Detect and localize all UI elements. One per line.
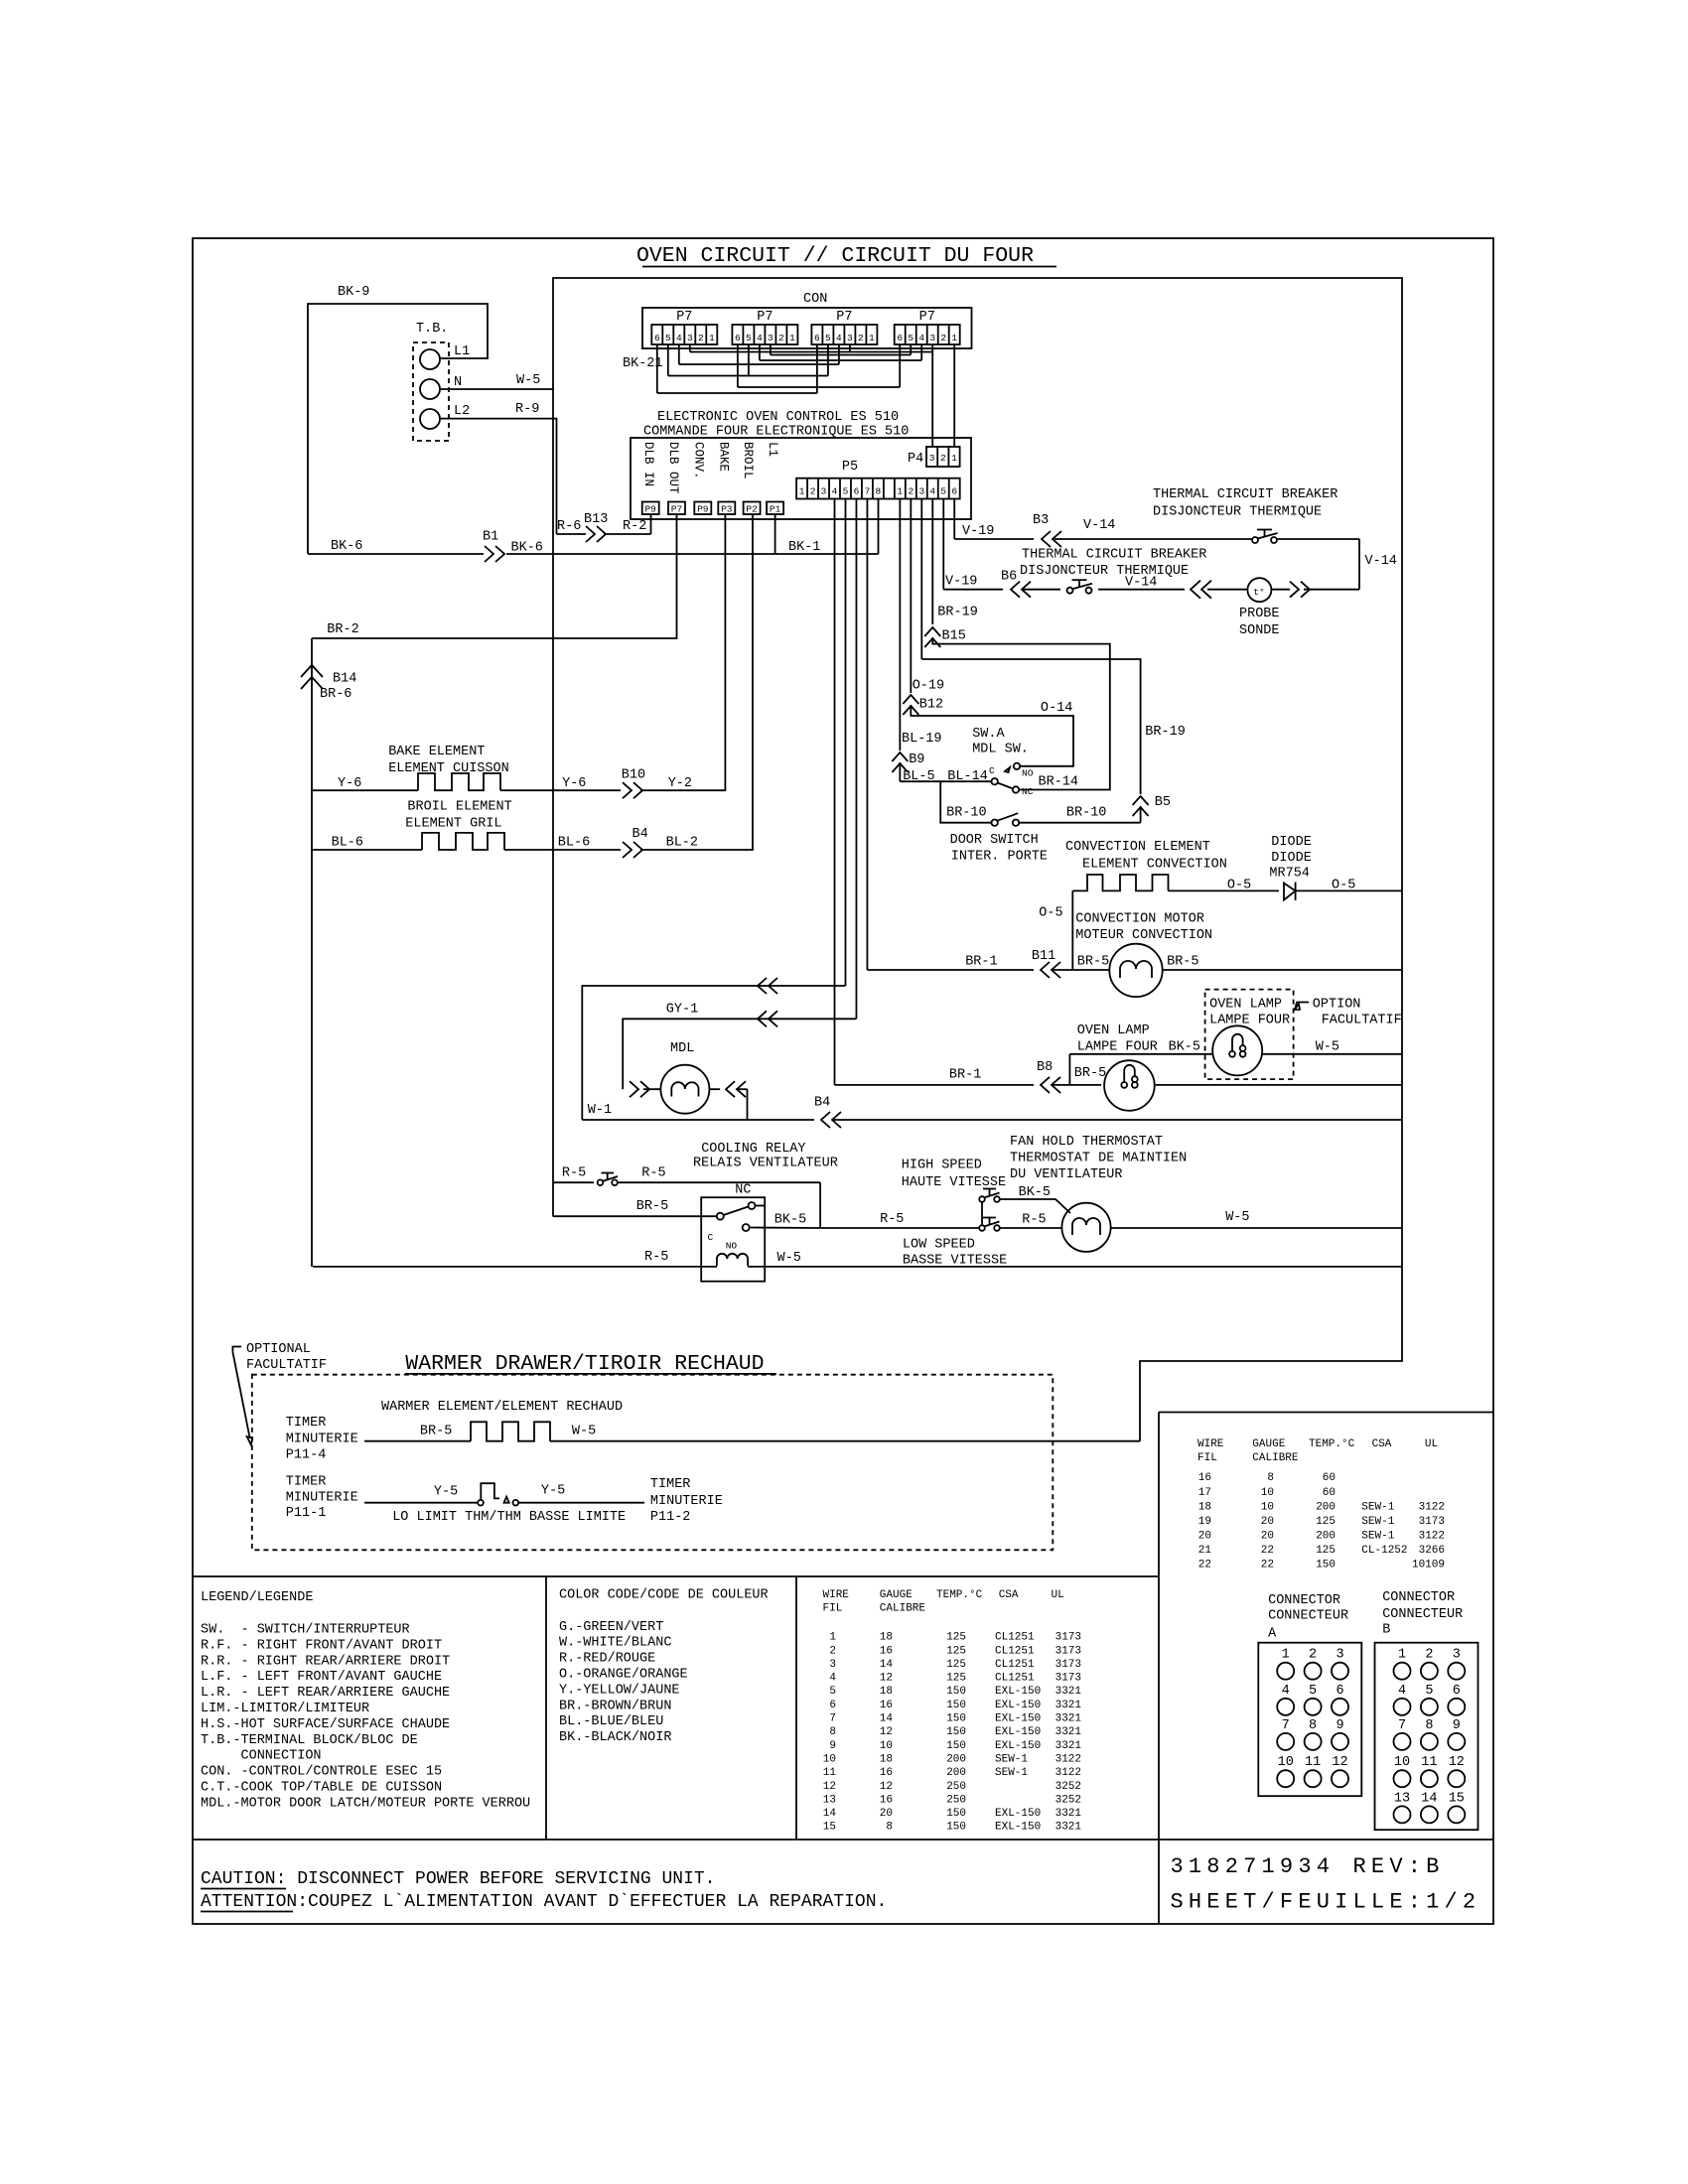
svg-text:4: 4	[832, 486, 838, 497]
wire BK-9 loop from L1	[308, 304, 488, 554]
wire drop g3 pin5	[827, 344, 829, 376]
svg-text:3266: 3266	[1419, 1545, 1445, 1557]
svg-text:5: 5	[829, 1686, 836, 1698]
connector P3 box	[718, 502, 735, 515]
wire P5-A5 down (GY-1)	[855, 499, 857, 1020]
svg-text:BR-1: BR-1	[949, 1068, 981, 1083]
wire W-5 from fan motor to right edge	[1111, 1227, 1402, 1229]
svg-text:P9: P9	[644, 504, 656, 515]
svg-text:BR-10: BR-10	[1066, 806, 1107, 821]
wire g4 pin1 down to P4 pin 1	[953, 344, 955, 447]
svg-text:125: 125	[946, 1673, 966, 1685]
svg-text:Y-5: Y-5	[541, 1484, 565, 1499]
svg-text:10: 10	[823, 1753, 836, 1765]
svg-text:Y-5: Y-5	[434, 1485, 458, 1500]
svg-text:UL: UL	[1425, 1438, 1438, 1450]
svg-text:CALIBRE: CALIBRE	[880, 1603, 926, 1615]
svg-text:CSA: CSA	[1372, 1438, 1392, 1450]
svg-text:5: 5	[940, 486, 946, 497]
bake element	[418, 773, 500, 790]
svg-text:TIMER: TIMER	[286, 1474, 327, 1489]
svg-text:150: 150	[946, 1686, 966, 1698]
wire R-6 / R-2 with splice B13	[557, 533, 587, 535]
svg-text:B14: B14	[333, 672, 356, 687]
svg-text:ATTENTION:COUPEZ L`ALIMENTATIO: ATTENTION:COUPEZ L`ALIMENTATION AVANT D`…	[201, 1892, 887, 1912]
wire R-9 from L2	[440, 419, 557, 534]
thermal switch on R-5	[598, 1179, 604, 1185]
svg-text:6: 6	[1453, 1684, 1461, 1699]
svg-text:3321: 3321	[1055, 1713, 1082, 1725]
splice B3	[1042, 531, 1051, 547]
svg-text:3: 3	[768, 333, 774, 343]
svg-text:BR-5: BR-5	[1074, 1066, 1106, 1081]
svg-text:20: 20	[880, 1808, 893, 1820]
svg-text:6: 6	[897, 333, 903, 343]
option dashed box	[1205, 990, 1294, 1080]
svg-text:BL-6: BL-6	[558, 836, 590, 851]
svg-text:P7: P7	[676, 310, 692, 325]
main oven lamp	[1104, 1060, 1155, 1111]
svg-text:16: 16	[880, 1767, 893, 1779]
svg-text:OPTION: OPTION	[1313, 997, 1361, 1012]
svg-text:1: 1	[1398, 1648, 1406, 1663]
svg-text:SW.A: SW.A	[972, 727, 1005, 742]
svg-text:16: 16	[880, 1645, 893, 1657]
svg-text:DIODE: DIODE	[1271, 851, 1312, 866]
svg-text:BROIL ELEMENT: BROIL ELEMENT	[407, 800, 511, 815]
svg-text:4: 4	[676, 333, 682, 343]
svg-text:14: 14	[880, 1713, 894, 1725]
connector P2 box	[744, 502, 761, 515]
svg-text:22: 22	[1261, 1560, 1274, 1571]
svg-text:14: 14	[1421, 1791, 1437, 1806]
leader arrow	[232, 1347, 241, 1352]
legend row frame	[193, 1575, 1159, 1577]
svg-text:EXL-150: EXL-150	[995, 1808, 1041, 1820]
svg-text:8: 8	[886, 1822, 893, 1834]
wire B15 to SW.A NC net	[932, 637, 1110, 790]
wire g4 pin3 down to P4 pin 3	[931, 344, 933, 447]
svg-text:P11-2: P11-2	[650, 1510, 691, 1525]
svg-text:OVEN LAMP: OVEN LAMP	[1077, 1024, 1150, 1038]
svg-text:R-5: R-5	[562, 1166, 586, 1181]
wire drop g2 pin6	[737, 344, 739, 387]
svg-text:W-5: W-5	[572, 1424, 596, 1438]
warmer element wire BR-5	[364, 1440, 471, 1442]
svg-text:BR-6: BR-6	[320, 687, 352, 702]
svg-text:V-14: V-14	[1365, 554, 1397, 569]
svg-text:L1: L1	[454, 344, 470, 359]
svg-text:3173: 3173	[1419, 1516, 1445, 1528]
svg-text:CONNECTEUR: CONNECTEUR	[1268, 1609, 1348, 1624]
svg-text:BR-19: BR-19	[937, 605, 978, 619]
svg-text:BK-5: BK-5	[1169, 1039, 1200, 1054]
wire BR-10 right to BR-19 junction	[1019, 822, 1140, 824]
svg-text:10: 10	[1278, 1755, 1294, 1770]
connector P7 group 4	[895, 325, 960, 344]
wire drop g2 pin5	[748, 344, 750, 376]
svg-text:EXL-150: EXL-150	[995, 1713, 1041, 1725]
svg-text:2: 2	[1425, 1648, 1433, 1663]
harness row 4	[679, 363, 839, 365]
svg-text:7: 7	[1282, 1718, 1290, 1733]
svg-text:CL-1252: CL-1252	[1361, 1545, 1407, 1557]
probe circle	[1247, 578, 1271, 602]
svg-text:2: 2	[829, 1645, 836, 1657]
svg-text:125: 125	[946, 1645, 966, 1657]
svg-text:3321: 3321	[1055, 1700, 1082, 1711]
svg-text:2: 2	[1309, 1648, 1317, 1663]
svg-text:EXL-150: EXL-150	[995, 1740, 1041, 1752]
wire P5-A4 down	[844, 499, 846, 987]
svg-text:R-5: R-5	[644, 1250, 668, 1265]
svg-text:4: 4	[836, 333, 842, 343]
svg-text:N: N	[454, 375, 462, 390]
wire drop g3 pin4	[838, 344, 840, 364]
svg-text:200: 200	[946, 1753, 966, 1765]
svg-text:3321: 3321	[1055, 1808, 1082, 1820]
svg-text:MINUTERIE: MINUTERIE	[286, 1490, 358, 1505]
splice big left chevrons	[1191, 581, 1200, 599]
svg-text:NC: NC	[1022, 786, 1034, 797]
svg-text:3: 3	[929, 333, 935, 343]
wire P5-B3 down (BR-19)	[920, 499, 922, 660]
svg-text:CONVECTION ELEMENT: CONVECTION ELEMENT	[1065, 840, 1210, 855]
svg-text:BAKE ELEMENT: BAKE ELEMENT	[388, 745, 485, 759]
connector P4	[926, 447, 960, 467]
svg-text:P3: P3	[721, 504, 733, 515]
wire BR-6 vertical	[311, 638, 313, 1267]
svg-text:L.R. - LEFT REAR/ARRIERE GAUCH: L.R. - LEFT REAR/ARRIERE GAUCHE	[201, 1686, 450, 1701]
svg-text:11: 11	[1305, 1755, 1321, 1770]
connector P7 group 1	[651, 325, 717, 344]
svg-text:CONNECTOR: CONNECTOR	[1268, 1593, 1340, 1608]
wire from element down to motor wire	[1071, 890, 1073, 970]
svg-text:CL1251: CL1251	[995, 1632, 1035, 1644]
svg-text:SEW-1: SEW-1	[1361, 1501, 1394, 1513]
wire W-1 / B4 horizontal	[582, 1119, 814, 1121]
svg-text:6: 6	[814, 333, 820, 343]
svg-text:150: 150	[946, 1726, 966, 1738]
svg-text:R-5: R-5	[641, 1166, 665, 1181]
svg-text:BR-1: BR-1	[965, 954, 997, 969]
svg-text:MDL SW.: MDL SW.	[972, 743, 1029, 757]
svg-text:1: 1	[1282, 1648, 1290, 1663]
thermal circuit breaker 2	[1067, 588, 1073, 594]
svg-text:DLB OUT: DLB OUT	[666, 442, 680, 494]
wire R-5 upper with switch	[553, 1181, 594, 1183]
svg-text:CALIBRE: CALIBRE	[1252, 1452, 1299, 1464]
svg-text:R-6: R-6	[557, 519, 581, 534]
svg-text:3: 3	[929, 453, 935, 464]
svg-text:HIGH SPEED: HIGH SPEED	[902, 1159, 982, 1173]
svg-text:L.F. - LEFT FRONT/AVANT GAUCHE: L.F. - LEFT FRONT/AVANT GAUCHE	[201, 1670, 442, 1685]
svg-text:TEMP.°C: TEMP.°C	[936, 1589, 983, 1601]
terminal L1	[420, 349, 440, 369]
wire W-5 warmer right	[550, 1440, 1140, 1442]
svg-text:1: 1	[709, 333, 715, 343]
wire from P5-A4 with splice	[582, 986, 845, 1120]
svg-text:R.-RED/ROUGE: R.-RED/ROUGE	[559, 1652, 655, 1667]
svg-text:MINUTERIE: MINUTERIE	[286, 1433, 358, 1447]
svg-text:CL1251: CL1251	[995, 1659, 1035, 1671]
svg-text:CONVECTION MOTOR: CONVECTION MOTOR	[1075, 912, 1204, 927]
svg-text:V-14: V-14	[1125, 576, 1157, 591]
svg-text:DISJONCTEUR THERMIQUE: DISJONCTEUR THERMIQUE	[1153, 505, 1322, 520]
svg-text:11: 11	[1421, 1755, 1437, 1770]
svg-text:5: 5	[1425, 1684, 1433, 1699]
svg-text:W-5: W-5	[516, 373, 540, 388]
svg-text:W-5: W-5	[1316, 1039, 1339, 1054]
splice B9	[892, 752, 908, 761]
svg-text:13: 13	[1394, 1791, 1410, 1806]
svg-text:1: 1	[897, 486, 903, 497]
svg-text:6: 6	[654, 333, 660, 343]
svg-text:EXL-150: EXL-150	[995, 1686, 1041, 1698]
svg-text:B11: B11	[1032, 949, 1055, 964]
broil element BL-6 wire	[312, 849, 422, 851]
svg-text:MOTEUR CONVECTION: MOTEUR CONVECTION	[1075, 928, 1212, 943]
svg-text:RELAIS VENTILATEUR: RELAIS VENTILATEUR	[693, 1156, 838, 1170]
svg-text:16: 16	[880, 1700, 893, 1711]
svg-text:1: 1	[799, 486, 805, 497]
wire Y-5 right	[518, 1502, 644, 1504]
svg-text:B10: B10	[622, 767, 645, 782]
connector P1 box	[767, 502, 783, 515]
wire P5-A3 down (BR-1 to B8)	[834, 499, 836, 1085]
svg-text:FIL: FIL	[823, 1603, 843, 1615]
optional oven lamp	[1212, 1025, 1262, 1075]
svg-text:16: 16	[1198, 1472, 1211, 1484]
svg-text:6: 6	[735, 333, 741, 343]
svg-text:G.-GREEN/VERT: G.-GREEN/VERT	[559, 1620, 663, 1635]
junction up to BK-5 wire	[1068, 1054, 1070, 1085]
wire O-14 to SW.A NO	[911, 705, 1073, 766]
svg-text:C: C	[989, 765, 995, 776]
svg-text:GY-1: GY-1	[666, 1003, 698, 1018]
svg-text:4: 4	[918, 333, 924, 343]
svg-text:BK-6: BK-6	[511, 541, 543, 556]
svg-text:12: 12	[823, 1781, 836, 1793]
splice B14	[301, 665, 323, 677]
cooling relay box	[701, 1197, 765, 1282]
svg-text:19: 19	[1198, 1516, 1211, 1528]
svg-text:5: 5	[825, 333, 831, 343]
svg-text:8: 8	[1425, 1718, 1433, 1733]
wire down to BK-5 node	[819, 1182, 821, 1228]
wire P5-B4 down (B15)	[931, 499, 933, 625]
svg-text:WARMER ELEMENT/ELEMENT RECHAUD: WARMER ELEMENT/ELEMENT RECHAUD	[381, 1400, 623, 1415]
svg-text:15: 15	[1449, 1791, 1465, 1806]
wire drop g1 pin4	[678, 344, 680, 364]
svg-text:LOW SPEED: LOW SPEED	[903, 1237, 975, 1252]
svg-text:3321: 3321	[1055, 1726, 1082, 1738]
svg-text:CAUTION: DISCONNECT POWER BEFO: CAUTION: DISCONNECT POWER BEFORE SERVICI…	[201, 1869, 715, 1889]
svg-text:3321: 3321	[1055, 1740, 1082, 1752]
wire drop g2 pin4	[759, 344, 761, 360]
svg-text:NO: NO	[726, 1241, 738, 1252]
svg-text:Y-2: Y-2	[668, 776, 692, 791]
svg-text:B4: B4	[633, 827, 648, 842]
svg-text:OPTIONAL: OPTIONAL	[246, 1342, 311, 1357]
svg-text:NC: NC	[735, 1183, 751, 1198]
svg-text:12: 12	[880, 1726, 893, 1738]
low speed switch	[979, 1225, 985, 1231]
high speed switch	[979, 1196, 985, 1202]
svg-text:3173: 3173	[1055, 1632, 1081, 1644]
svg-text:1: 1	[829, 1632, 836, 1644]
svg-text:13: 13	[823, 1794, 836, 1806]
svg-text:8: 8	[1267, 1472, 1274, 1484]
svg-text:W-5: W-5	[1225, 1210, 1249, 1225]
svg-text:P11-4: P11-4	[286, 1448, 327, 1463]
svg-text:W-5: W-5	[777, 1251, 801, 1266]
svg-text:3122: 3122	[1419, 1530, 1445, 1542]
harness row 3	[760, 359, 921, 361]
svg-text:125: 125	[946, 1632, 966, 1644]
right table box left edge	[1158, 1413, 1160, 1925]
svg-text:Y.-YELLOW/JAUNE: Y.-YELLOW/JAUNE	[559, 1683, 680, 1698]
svg-text:B4: B4	[814, 1096, 830, 1111]
convection motor	[1109, 944, 1162, 997]
svg-text:BK-5: BK-5	[1019, 1185, 1051, 1200]
svg-text:9: 9	[1336, 1718, 1343, 1733]
svg-text:18: 18	[880, 1686, 893, 1698]
svg-text:7: 7	[865, 486, 871, 497]
svg-text:PROBE: PROBE	[1239, 607, 1280, 621]
svg-text:MINUTERIE: MINUTERIE	[650, 1494, 723, 1509]
svg-text:3173: 3173	[1055, 1673, 1081, 1685]
svg-text:LEGEND/LEGENDE: LEGEND/LEGENDE	[201, 1590, 313, 1605]
svg-text:H.S.-HOT SURFACE/SURFACE CHAUD: H.S.-HOT SURFACE/SURFACE CHAUDE	[201, 1717, 450, 1732]
harness row 5	[668, 375, 828, 377]
svg-text:SONDE: SONDE	[1239, 623, 1280, 638]
wire drop g3 pin3	[849, 344, 851, 352]
svg-text:6: 6	[1336, 1684, 1343, 1699]
svg-text:OVEN CIRCUIT // CIRCUIT DU FOU: OVEN CIRCUIT // CIRCUIT DU FOUR	[636, 244, 1034, 268]
svg-text:O-19: O-19	[913, 679, 944, 694]
svg-text:R-5: R-5	[1022, 1213, 1046, 1228]
svg-text:4: 4	[1398, 1684, 1406, 1699]
svg-text:BR-5: BR-5	[636, 1199, 668, 1214]
wire drop g2 pin3	[770, 344, 772, 355]
svg-text:2: 2	[940, 333, 946, 343]
svg-text:6: 6	[829, 1700, 836, 1711]
svg-text:2: 2	[908, 486, 914, 497]
svg-text:O-5: O-5	[1039, 906, 1062, 921]
svg-text:SEW-1: SEW-1	[1361, 1516, 1394, 1528]
wire BR-10 from BL-5 down to door switch	[940, 781, 991, 823]
svg-text:SHEET/FEUILLE:1/2: SHEET/FEUILLE:1/2	[1171, 1890, 1481, 1915]
svg-text:200: 200	[1316, 1530, 1336, 1542]
svg-text:BK.-BLACK/NOIR: BK.-BLACK/NOIR	[559, 1730, 671, 1745]
harness row 2	[771, 354, 911, 356]
svg-text:V-14: V-14	[1083, 518, 1115, 533]
svg-text:P7: P7	[671, 504, 682, 515]
svg-text:B3: B3	[1033, 513, 1049, 528]
svg-text:TIMER: TIMER	[286, 1416, 327, 1431]
svg-text:LAMPE FOUR: LAMPE FOUR	[1077, 1039, 1158, 1054]
wire drop g1 pin5	[667, 344, 669, 376]
harness row 6	[738, 386, 900, 388]
svg-text:12: 12	[1449, 1755, 1465, 1770]
svg-text:LIM.-LIMITOR/LIMITEUR: LIM.-LIMITOR/LIMITEUR	[201, 1702, 369, 1716]
svg-text:10: 10	[1261, 1487, 1274, 1499]
svg-text:ELEMENT CONVECTION: ELEMENT CONVECTION	[1082, 858, 1227, 873]
svg-text:12: 12	[880, 1673, 893, 1685]
connector P7 group 2	[732, 325, 797, 344]
svg-text:21: 21	[1198, 1545, 1212, 1557]
svg-text:P1: P1	[770, 504, 781, 515]
wire P5-B6 down (V-19 upper)	[953, 499, 955, 540]
svg-text:ELECTRONIC OVEN CONTROL ES 510: ELECTRONIC OVEN CONTROL ES 510	[657, 410, 899, 425]
svg-text:BR-5: BR-5	[1077, 954, 1109, 969]
svg-text:4: 4	[1282, 1684, 1290, 1699]
wire R-5 into fan motor	[1000, 1227, 1062, 1229]
svg-text:5: 5	[746, 333, 752, 343]
svg-text:V-19: V-19	[945, 575, 977, 590]
svg-text:SW. - SWITCH/INTERRUPTEUR: SW. - SWITCH/INTERRUPTEUR	[201, 1623, 410, 1638]
splice B15	[924, 627, 940, 636]
wire L1 from P1 box down to BK-1	[774, 514, 776, 554]
svg-text:8: 8	[1309, 1718, 1317, 1733]
wire drop g4 pin6	[899, 344, 901, 387]
svg-text:125: 125	[1316, 1545, 1336, 1557]
svg-text:W-1: W-1	[588, 1103, 612, 1118]
thermal circuit breaker 1	[1252, 537, 1258, 543]
svg-text:B15: B15	[942, 629, 966, 644]
svg-text:2: 2	[940, 453, 946, 464]
wire V-19 lower	[943, 589, 1003, 591]
terminal L2	[420, 409, 440, 429]
svg-text:3: 3	[918, 486, 924, 497]
wire V-14 right vertical	[1358, 539, 1360, 590]
svg-text:B6: B6	[1001, 570, 1017, 585]
svg-text:6: 6	[854, 486, 860, 497]
svg-text:6: 6	[951, 486, 957, 497]
fan motor	[1061, 1203, 1110, 1252]
wire BK-5 into fan motor	[1000, 1199, 1070, 1213]
door switch	[992, 820, 998, 826]
connector B box	[1375, 1643, 1478, 1831]
svg-text:7: 7	[829, 1713, 836, 1725]
svg-text:SEW-1: SEW-1	[995, 1753, 1028, 1765]
svg-text:9: 9	[1453, 1718, 1461, 1733]
warmer element	[471, 1422, 550, 1440]
svg-text:UL: UL	[1052, 1589, 1064, 1601]
svg-text:DISJONCTEUR THERMIQUE: DISJONCTEUR THERMIQUE	[1020, 564, 1189, 579]
svg-text:20: 20	[1261, 1530, 1274, 1542]
convection element	[1072, 875, 1168, 890]
svg-text:P2: P2	[746, 504, 758, 515]
svg-text:3: 3	[687, 333, 693, 343]
connector P7 group 3	[811, 325, 877, 344]
svg-text:THERMAL CIRCUIT BREAKER: THERMAL CIRCUIT BREAKER	[1153, 487, 1337, 502]
svg-text:BK-1: BK-1	[788, 540, 820, 555]
svg-text:O.-ORANGE/ORANGE: O.-ORANGE/ORANGE	[559, 1668, 688, 1683]
svg-text:TEMP.°C: TEMP.°C	[1309, 1438, 1355, 1450]
svg-text:CONV.: CONV.	[692, 442, 706, 479]
connector A box	[1258, 1643, 1361, 1797]
right table box top	[1159, 1412, 1493, 1414]
svg-text:MDL.-MOTOR DOOR LATCH/MOTEUR P: MDL.-MOTOR DOOR LATCH/MOTEUR PORTE VERRO…	[201, 1796, 530, 1811]
bake element Y-6 wire	[312, 789, 418, 791]
svg-text:R-9: R-9	[515, 402, 539, 417]
svg-text:FACULTATIF: FACULTATIF	[246, 1358, 327, 1373]
wire drop g1 pin3	[689, 344, 691, 352]
svg-text:BR.-BROWN/BRUN: BR.-BROWN/BRUN	[559, 1699, 671, 1713]
splice B5	[1133, 796, 1149, 805]
